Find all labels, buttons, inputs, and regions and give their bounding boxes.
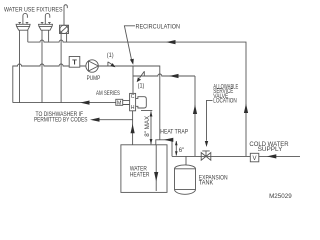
wire hot supply to valve H port (132, 111, 134, 145)
expansion tank (175, 165, 196, 194)
wire dip tube (155, 145, 157, 191)
wire recirculation return line (13, 64, 160, 140)
wire cold feed to mixing valve (133, 74, 195, 76)
svg-text:HEATER: HEATER (130, 171, 150, 178)
wire dishwasher branch (99, 119, 133, 121)
wire hot drop fixture1 (19, 30, 21, 102)
arrowhead allowable valve leader (205, 141, 208, 147)
leader recirculation (124, 26, 135, 61)
arrow riser up x195 (193, 105, 197, 115)
svg-text:(1): (1) (107, 52, 114, 59)
dimension 6 inch (175, 141, 178, 156)
svg-text:RECIRCULATION: RECIRCULATION (136, 24, 181, 31)
svg-text:HEAT TRAP: HEAT TRAP (160, 128, 188, 135)
flow arrows (80, 40, 276, 182)
arrow cold feed left (169, 74, 179, 78)
svg-text:PUMP: PUMP (87, 75, 101, 82)
wire heat trap (156, 140, 172, 157)
arrow dishwasher left (90, 118, 100, 122)
wire cold water main to fixtures (28, 40, 246, 156)
arrow cold supply left (267, 154, 277, 158)
svg-text:C: C (131, 94, 135, 100)
svg-text:TANK: TANK (199, 180, 214, 187)
svg-text:SUPPLY: SUPPLY (258, 146, 283, 153)
svg-text:WATER USE FIXTURES: WATER USE FIXTURES (4, 6, 63, 13)
check valve 1 pump line (108, 62, 116, 68)
fixture washing machine (60, 5, 69, 34)
wire mixed hot water main (13, 102, 116, 104)
svg-text:LOCATION: LOCATION (213, 98, 236, 105)
arrow riser up x246 (244, 104, 248, 114)
wire cold tap fixture3 (66, 34, 68, 43)
arrow dip tube down (154, 172, 158, 182)
arrow hot main left (80, 101, 90, 105)
wire hot drop fixture3 (60, 34, 62, 103)
mixing valve AM series (116, 93, 147, 110)
arrow hot up to valve (131, 124, 135, 134)
svg-text:M: M (117, 100, 122, 106)
svg-text:(1): (1) (138, 82, 145, 89)
arrowhead recirculation leader (130, 59, 134, 65)
dimension 8 inch max (141, 111, 152, 145)
svg-text:AM SERIES: AM SERIES (96, 90, 120, 97)
service valve bowtie (201, 151, 211, 160)
shutoff valve V (250, 153, 258, 162)
wire cold water supply line (172, 155, 300, 157)
wire riser cold to mixing valve (194, 76, 196, 156)
leader allowable service valve (207, 100, 213, 140)
water heater (121, 145, 167, 193)
svg-text:8" MAX: 8" MAX (144, 116, 151, 137)
arrow cold main left (166, 40, 176, 44)
pump (86, 60, 98, 72)
wire hot drop fixture2 (41, 30, 43, 102)
arrow heat trap left (164, 138, 174, 142)
svg-text:M25029: M25029 (269, 193, 292, 200)
fixture sink 1 (16, 13, 30, 30)
svg-text:6": 6" (179, 147, 185, 154)
aquastat T (69, 57, 80, 68)
svg-text:V: V (252, 156, 256, 162)
wire recirc drop to C port (132, 66, 134, 93)
wire expansion tank branch (185, 156, 187, 165)
wire cold tap fixture1 (27, 30, 29, 42)
check valve 2 cold feed (137, 71, 145, 82)
svg-text:H: H (131, 105, 135, 111)
wire cold tap fixture2 (48, 30, 50, 42)
svg-text:T: T (72, 58, 77, 67)
svg-text:PERMITTED BY CODES: PERMITTED BY CODES (34, 117, 88, 124)
fixture sink 2 (39, 13, 53, 30)
